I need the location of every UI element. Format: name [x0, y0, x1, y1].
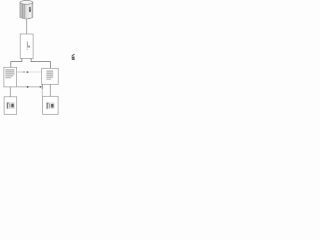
M1 text lines — [5, 69, 14, 78]
wire M1 to M3 — [9, 87, 11, 98]
arrow M1 to junction A — [17, 71, 25, 73]
wire U1 right leg to right rail — [31, 58, 50, 68]
module M1 box (upper left) — [4, 67, 17, 87]
regulator U1 box — [20, 34, 33, 58]
junction dot A — [26, 71, 28, 73]
battery BT1 (3D cylinder cell) — [20, 1, 33, 19]
figure label fragment, line 1 (clipped at right edge) — [72, 54, 75, 57]
module M4 box (lower right) — [43, 96, 59, 114]
U1 vertical value label — [27, 42, 30, 50]
wire battery to regulator U1 — [26, 19, 28, 34]
vertical tie M2 bottom-left to M4 top-left — [41, 84, 43, 89]
figure label fragment, line 2 (clipped at right edge) — [72, 57, 75, 60]
arrowhead at M2/M4 left tie — [40, 86, 42, 88]
M2 text lines — [46, 71, 53, 80]
wire junction A to M2 — [29, 71, 42, 73]
wire M2 to M4 — [49, 84, 51, 96]
connector M1 to junction B — [17, 86, 40, 88]
module M3 box (lower left) — [4, 97, 17, 115]
M4 icon marks — [46, 102, 55, 109]
M3 icon marks — [6, 102, 15, 109]
junction dot B — [27, 86, 29, 88]
module M2 box (upper right) — [42, 68, 59, 84]
wire U1 left leg to left rail — [11, 58, 22, 67]
